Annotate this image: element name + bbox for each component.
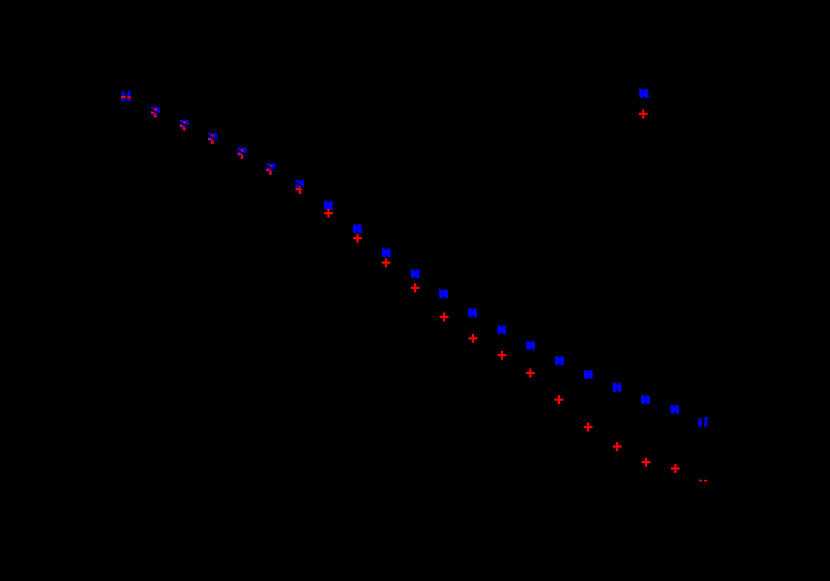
- atom N5: [237, 146, 247, 159]
- atom N7: [295, 179, 305, 192]
- atom N10: [382, 247, 392, 260]
- atom N18: [612, 382, 622, 395]
- atom N20: [670, 404, 680, 417]
- charge + fragments visible over atom N3: [180, 121, 186, 130]
- atom N8: [324, 200, 334, 213]
- atom N13: [468, 307, 478, 320]
- atom N16: [555, 355, 565, 368]
- bond through atom N7 (black over label): [294, 181, 305, 188]
- bond stub lower-right of atom N7: [300, 187, 305, 190]
- charge + on atom N2 (under label): [151, 108, 160, 117]
- charge + of atom N10: [382, 258, 391, 267]
- bond through atom N5 (black over label): [236, 150, 247, 156]
- atom N15: [526, 340, 536, 353]
- terminal amine label H (chain end): [698, 417, 708, 426]
- atom N4: [208, 131, 218, 144]
- atom N2: [151, 106, 161, 119]
- charge + on terminal N (red band): [121, 96, 131, 98]
- charge + on atom N3 (under label): [180, 121, 189, 130]
- atom N6: [266, 162, 276, 175]
- atom N3: [180, 118, 190, 131]
- bond stub lower-right of atom N4: [213, 140, 218, 143]
- charge + fragments visible over atom N4: [208, 135, 214, 144]
- charge + of atom N8: [324, 209, 333, 218]
- charge + of atom N14: [498, 351, 507, 360]
- charge + fragments visible over atom N7: [296, 185, 302, 194]
- charge + on atom N4 (under label): [208, 135, 217, 144]
- bond stub lower-right of atom N3: [185, 127, 190, 129]
- charge + of atom N18: [613, 442, 622, 451]
- atom N11: [410, 268, 420, 281]
- bond through atom N3 (black over label): [179, 122, 190, 127]
- charge + marks (red dashes) below end H: [699, 480, 707, 482]
- charge + of atom N20: [671, 464, 680, 473]
- charge + of atom N17: [584, 423, 593, 432]
- atom N17: [584, 369, 594, 382]
- bond through atom N4 (black over label): [207, 135, 218, 140]
- charge + fragments visible over atom N2: [151, 108, 157, 117]
- bond through atom N6 (black over label): [265, 165, 276, 171]
- atom N14: [497, 324, 507, 337]
- bond stub lower-right of atom N5: [242, 155, 247, 158]
- charge + of atom N13: [469, 334, 478, 343]
- bond stub lower-right of atom N2: [156, 114, 161, 116]
- charge + of atom N11: [411, 283, 420, 292]
- charge + of atom N16: [555, 395, 564, 404]
- charge + of atom N19: [642, 458, 651, 467]
- charge + of atom N12: [440, 313, 449, 322]
- atom N19: [641, 394, 651, 407]
- charge + of atom N15: [526, 369, 535, 378]
- isolated atom N22: [639, 88, 649, 101]
- charge + on atom N5 (under label): [238, 149, 247, 158]
- charge + on atom N7 (under label): [296, 185, 305, 194]
- bond stub lower-right of atom N6: [271, 171, 276, 174]
- charge + of atom N22: [639, 109, 648, 118]
- atom N12: [439, 288, 449, 301]
- bond through atom N2 (black over label): [150, 109, 161, 114]
- atom N9: [353, 223, 363, 236]
- terminal amine label H2N (chain start): [121, 90, 132, 101]
- charge + of atom N9: [353, 234, 362, 243]
- charge + fragments visible over atom N6: [266, 166, 272, 175]
- svg-text:N: N: [641, 89, 649, 101]
- charge + fragments visible over atom N5: [238, 150, 244, 159]
- charge + on atom N6 (under label): [266, 165, 275, 174]
